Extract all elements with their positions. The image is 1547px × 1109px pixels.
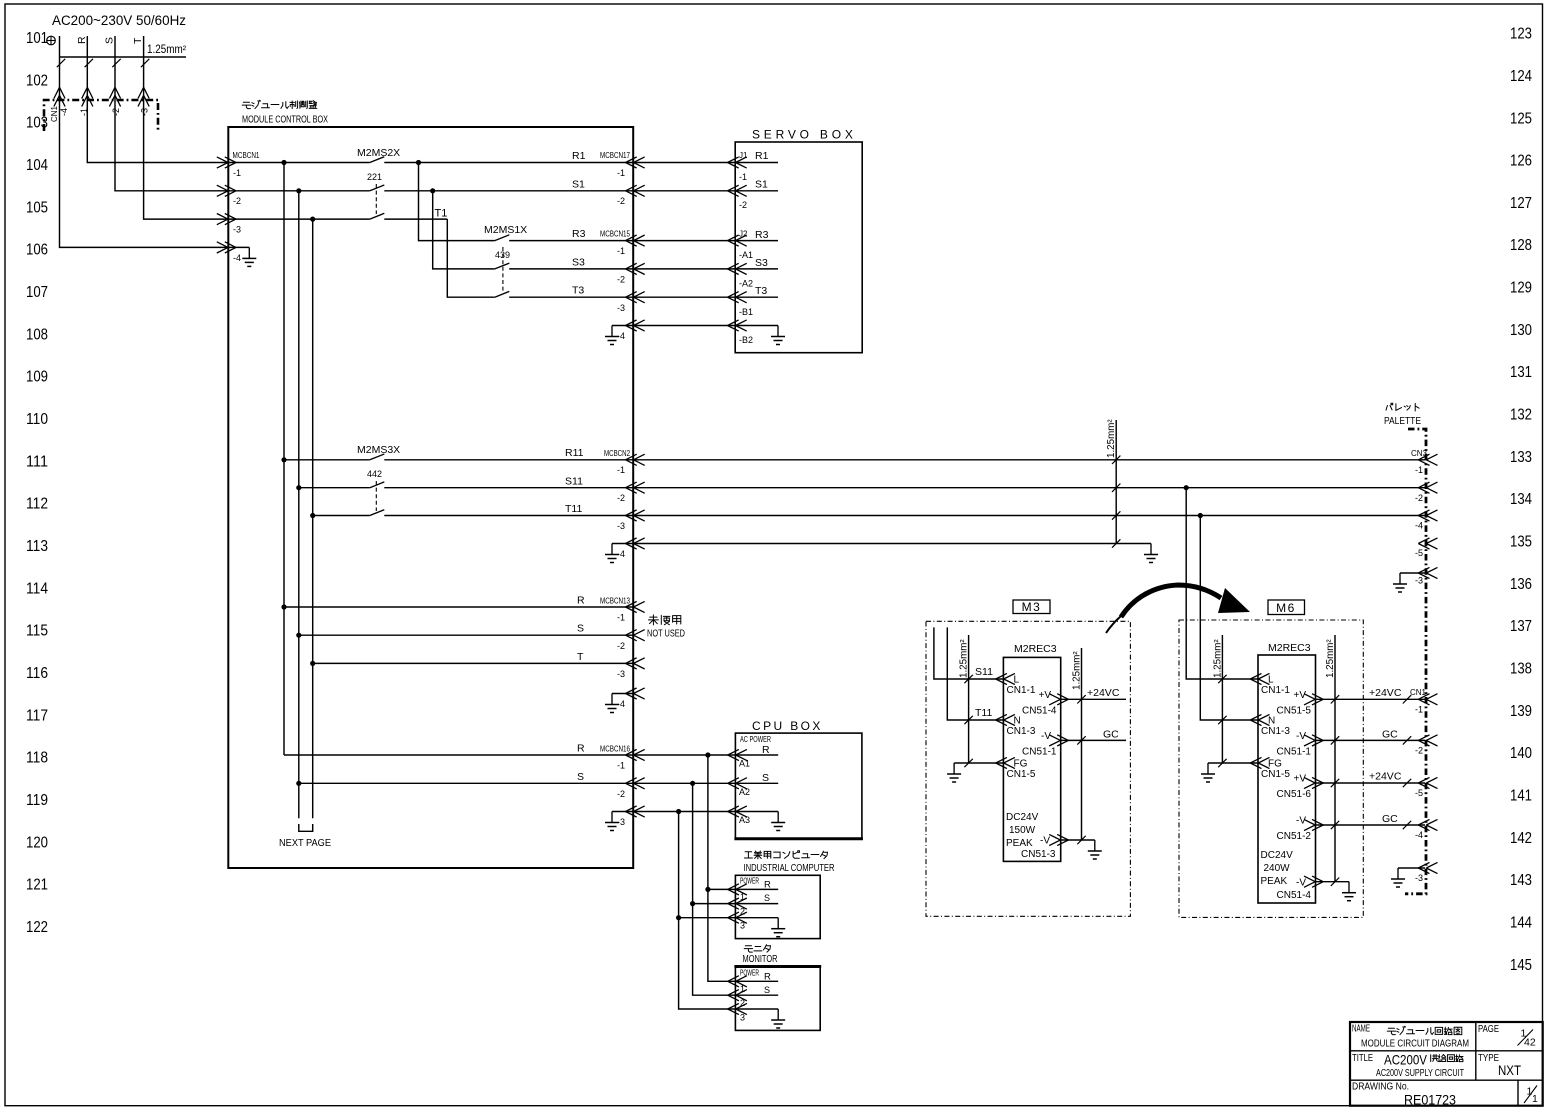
wire S11 stub M3 — [934, 627, 1004, 679]
svg-text:S11: S11 — [975, 666, 993, 678]
svg-text:-B1: -B1 — [739, 307, 753, 317]
svg-text:MCBCN17: MCBCN17 — [600, 150, 630, 160]
wire gauge line M6 right — [1334, 635, 1336, 882]
svg-text:123: 123 — [1510, 26, 1532, 43]
svg-text:3: 3 — [740, 921, 745, 931]
svg-text:42: 42 — [1524, 1037, 1536, 1049]
svg-text:-V: -V — [1041, 731, 1051, 742]
svg-text:117: 117 — [26, 707, 48, 724]
svg-text:-3: -3 — [233, 225, 241, 235]
svg-text:-2: -2 — [233, 196, 241, 206]
svg-text:131: 131 — [1510, 364, 1532, 381]
svg-text:107: 107 — [26, 284, 48, 301]
svg-text:-3: -3 — [1415, 873, 1423, 883]
svg-text:136: 136 — [1510, 576, 1532, 593]
svg-text:130: 130 — [1510, 322, 1532, 339]
svg-text:-2: -2 — [111, 108, 121, 116]
module M3 label — [1013, 600, 1050, 614]
svg-text:-3: -3 — [617, 521, 625, 531]
svg-text:CN51-2: CN51-2 — [1277, 831, 1312, 842]
svg-text:142: 142 — [1510, 830, 1532, 847]
wire S row (not used) — [299, 634, 633, 636]
wire MCBCN2-4 to ground right — [633, 543, 1151, 545]
bus R vertical — [283, 163, 285, 756]
svg-text:-5: -5 — [1415, 788, 1423, 798]
svg-text:1.25mm²: 1.25mm² — [1325, 639, 1336, 678]
svg-text:CN51-4: CN51-4 — [1277, 890, 1312, 901]
svg-text:3: 3 — [740, 1012, 745, 1022]
wire S drop to computer/monitor — [693, 783, 736, 995]
cpu box — [735, 733, 862, 839]
connector CN1 incoming (dashed box) — [44, 100, 158, 131]
wire S1 to servo — [633, 190, 735, 192]
svg-text:126: 126 — [1510, 153, 1532, 170]
svg-text:T: T — [132, 37, 144, 44]
ground at M6 -V — [1316, 881, 1350, 883]
module M6 dashed box — [1179, 620, 1363, 917]
next page continuation — [299, 824, 313, 831]
svg-text:T11: T11 — [565, 503, 582, 515]
svg-text:DRAWING No.: DRAWING No. — [1352, 1082, 1409, 1093]
svg-text:FG: FG — [1268, 759, 1282, 770]
ground at MCBCN16-3 — [612, 811, 633, 813]
svg-text:122: 122 — [26, 919, 48, 936]
wire T11 drop to M6 N — [1200, 516, 1258, 721]
wire PE to CPU A3 — [633, 811, 735, 813]
svg-text:1: 1 — [740, 984, 745, 994]
wire S11 drop to M6 L — [1186, 488, 1258, 679]
M2REC3 M6 pin -V CN51-1 — [1304, 735, 1323, 746]
svg-text:M3: M3 — [1022, 600, 1042, 614]
wire R3 row — [509, 240, 633, 242]
svg-text:140: 140 — [1510, 745, 1532, 762]
svg-text:AC POWER: AC POWER — [740, 734, 771, 744]
wire S row to CPU — [299, 782, 633, 784]
svg-text:CN1-5: CN1-5 — [1261, 769, 1290, 780]
wire T3 to servo — [633, 296, 735, 298]
svg-text:+24VC: +24VC — [1369, 687, 1402, 699]
wire S3 to servo — [633, 268, 735, 270]
power supply M2REC3 (M3) — [1003, 657, 1060, 861]
label not used — [648, 615, 658, 625]
svg-text:PAGE: PAGE — [1478, 1023, 1499, 1035]
M2REC3 M3 pin -V CN51-3 — [1049, 834, 1068, 845]
svg-text:S: S — [764, 985, 770, 995]
wire +24VC M3 — [1061, 698, 1126, 700]
svg-text:137: 137 — [1510, 618, 1532, 635]
svg-text:N: N — [1268, 716, 1275, 727]
M2REC3 M3 pin -V CN51-1 — [1049, 735, 1068, 746]
svg-text:R: R — [577, 743, 585, 755]
connector MCBCN13 — [626, 601, 645, 612]
svg-text:-3: -3 — [617, 669, 625, 679]
svg-text:MODULE CIRCUIT DIAGRAM: MODULE CIRCUIT DIAGRAM — [1361, 1039, 1469, 1050]
module control box — [228, 127, 633, 868]
svg-text:+V: +V — [1293, 690, 1306, 701]
svg-text:R1: R1 — [572, 150, 586, 162]
svg-text:NAME: NAME — [1352, 1024, 1370, 1035]
wire PE feed — [60, 36, 229, 247]
svg-text:+24VC: +24VC — [1087, 687, 1120, 699]
wire GC to palette CN1-2 — [1316, 739, 1426, 741]
svg-text:129: 129 — [1510, 280, 1532, 297]
svg-text:GC: GC — [1382, 813, 1398, 825]
left row labels 101-122 — [26, 30, 48, 936]
svg-text:CPU BOX: CPU BOX — [752, 719, 823, 733]
svg-text:128: 128 — [1510, 237, 1532, 254]
svg-text:-V: -V — [1296, 878, 1306, 889]
svg-text:R: R — [762, 744, 770, 756]
svg-text:-2: -2 — [617, 789, 625, 799]
wire R1 to servo — [633, 162, 735, 164]
svg-text:DC24V: DC24V — [1261, 850, 1294, 861]
svg-text:1: 1 — [1532, 1093, 1538, 1105]
wire T11 row — [384, 515, 1425, 517]
module M6 label — [1268, 600, 1305, 615]
ground at MCBCN1-4 — [228, 246, 249, 248]
svg-text:110: 110 — [26, 411, 48, 428]
svg-text:-1: -1 — [1415, 705, 1423, 715]
M2REC3 M6 pin N CN1-3 — [1250, 714, 1269, 725]
svg-text:M6: M6 — [1276, 601, 1296, 615]
svg-text:124: 124 — [1510, 68, 1532, 85]
svg-text:NXT: NXT — [1498, 1062, 1521, 1078]
svg-text:T3: T3 — [572, 285, 584, 297]
svg-text:TITLE: TITLE — [1352, 1053, 1373, 1064]
M2REC3 M6 pin +V CN51-6 — [1304, 777, 1323, 788]
M2REC3 M6 pin -V CN51-4 — [1304, 876, 1323, 887]
svg-text:112: 112 — [26, 496, 48, 513]
industrial computer box — [735, 875, 820, 938]
svg-text:1: 1 — [740, 892, 745, 902]
wire gauge line 1.25mm2 long — [1115, 420, 1117, 544]
svg-text:150W: 150W — [1009, 825, 1036, 836]
connector CPU AC POWER — [728, 749, 747, 760]
wire R11 row — [384, 459, 1425, 461]
svg-text:NEXT PAGE: NEXT PAGE — [279, 838, 331, 849]
svg-text:T3: T3 — [755, 285, 767, 297]
svg-text:MCBCN13: MCBCN13 — [600, 596, 630, 606]
servo box — [735, 142, 862, 353]
svg-text:134: 134 — [1510, 491, 1532, 508]
svg-text:-A1: -A1 — [739, 250, 753, 260]
svg-text:CN51-4: CN51-4 — [1022, 706, 1057, 717]
svg-text:144: 144 — [1510, 915, 1532, 932]
svg-text:DC24V: DC24V — [1006, 812, 1039, 823]
wire GC M3 — [1061, 739, 1126, 741]
ground at MCBCN2-4 inside — [612, 543, 633, 545]
svg-text:133: 133 — [1510, 449, 1532, 466]
svg-text:109: 109 — [26, 369, 48, 386]
svg-text:-V: -V — [1296, 731, 1306, 742]
svg-text:141: 141 — [1510, 788, 1532, 805]
svg-text:106: 106 — [26, 242, 48, 259]
svg-text:-2: -2 — [617, 641, 625, 651]
svg-text:AC200V SUPPLY CIRCUIT: AC200V SUPPLY CIRCUIT — [1376, 1068, 1464, 1079]
ground at servo -B2 — [735, 325, 778, 327]
svg-text:MCBCN1: MCBCN1 — [233, 150, 260, 160]
svg-text:M2REC3: M2REC3 — [1268, 642, 1311, 654]
svg-text:CN51-1: CN51-1 — [1022, 747, 1057, 758]
svg-text:T11: T11 — [975, 707, 992, 719]
contactor M2MS1X — [495, 235, 510, 241]
svg-text:J1: J1 — [739, 151, 748, 160]
svg-text:S: S — [764, 893, 770, 903]
svg-text:113: 113 — [26, 538, 48, 555]
svg-text:-1: -1 — [233, 168, 241, 178]
wire gauge bar 1.25mm2 — [60, 56, 187, 58]
svg-text:-2: -2 — [617, 275, 625, 285]
connector J2 — [728, 235, 747, 246]
wire R to CPU A1 — [633, 754, 735, 756]
svg-text:-1: -1 — [617, 168, 625, 178]
ground at computer pin3 — [735, 917, 778, 919]
svg-text:-1: -1 — [79, 108, 89, 116]
svg-text:MCBCN16: MCBCN16 — [600, 744, 630, 754]
wire R11 row left — [284, 459, 370, 461]
wire S1 row — [228, 190, 369, 192]
arrow M3 to M6 — [1121, 585, 1221, 617]
svg-text:1.25mm²: 1.25mm² — [959, 639, 970, 678]
ground at CN3-3 — [1400, 572, 1425, 574]
svg-text:R1: R1 — [755, 150, 769, 162]
svg-text:S: S — [577, 623, 584, 635]
svg-text:-B2: -B2 — [739, 335, 753, 345]
wire R row (not used) — [284, 606, 633, 608]
svg-text:442: 442 — [367, 469, 382, 479]
connector CN1 pin arrows — [54, 87, 65, 106]
svg-text:114: 114 — [26, 580, 48, 597]
contactor M2MS2X — [370, 157, 385, 163]
svg-text:143: 143 — [1510, 872, 1532, 889]
svg-text:J2: J2 — [739, 230, 748, 239]
bus S vertical — [298, 191, 300, 819]
svg-text:R3: R3 — [755, 229, 769, 241]
wire S11 row left — [299, 487, 370, 489]
svg-text:TYPE: TYPE — [1478, 1053, 1499, 1064]
svg-text:T: T — [577, 651, 584, 663]
connector computer POWER — [728, 884, 747, 895]
svg-text:-1: -1 — [617, 613, 625, 623]
ground at M6 FG — [1208, 762, 1258, 764]
svg-text:-A2: -A2 — [739, 279, 753, 289]
svg-text:A1: A1 — [739, 759, 750, 769]
svg-text:+V: +V — [1293, 774, 1306, 785]
wire gauge line M3 left — [968, 635, 970, 763]
svg-text:221: 221 — [367, 172, 382, 182]
svg-text:-2: -2 — [1415, 746, 1423, 756]
svg-text:1.25mm²: 1.25mm² — [147, 44, 186, 56]
svg-text:-1: -1 — [617, 761, 625, 771]
svg-text:CN51-1: CN51-1 — [1277, 747, 1312, 758]
svg-text:S: S — [762, 772, 769, 784]
svg-text:A2: A2 — [739, 787, 750, 797]
monitor box — [735, 967, 820, 1031]
svg-text:CN1-1: CN1-1 — [1007, 685, 1036, 696]
svg-text:111: 111 — [26, 453, 48, 470]
svg-text:PEAK: PEAK — [1261, 876, 1288, 887]
connector monitor POWER — [728, 976, 747, 987]
power supply M2REC3 (M6) — [1258, 655, 1316, 903]
M2REC3 M6 pin -V CN51-2 — [1304, 819, 1323, 830]
svg-text:-4: -4 — [59, 108, 69, 116]
ground at M3 FG — [954, 762, 1003, 764]
svg-text:CN51-5: CN51-5 — [1277, 706, 1312, 717]
ground at M3 -V — [1061, 839, 1095, 841]
wire gauge line M3 right — [1081, 648, 1083, 840]
svg-text:FG: FG — [1014, 759, 1028, 770]
svg-text:139: 139 — [1510, 703, 1532, 720]
svg-text:-4: -4 — [1415, 521, 1423, 531]
svg-text:M2MS1X: M2MS1X — [484, 224, 527, 236]
ground at MCBCN15-4 — [612, 325, 633, 327]
svg-text:116: 116 — [26, 665, 48, 682]
svg-text:-4: -4 — [233, 253, 241, 263]
wire T row (not used) — [313, 662, 634, 664]
svg-text:NOT USED: NOT USED — [647, 629, 685, 640]
M2REC3 M3 pin +V CN51-4 — [1049, 694, 1068, 705]
wire S feed — [115, 36, 228, 191]
svg-text:RE01723: RE01723 — [1404, 1092, 1456, 1108]
svg-text:INDUSTRIAL COMPUTER: INDUSTRIAL COMPUTER — [744, 863, 835, 874]
svg-text:T1: T1 — [435, 208, 448, 220]
svg-text:CN1: CN1 — [50, 105, 59, 122]
bus T vertical — [312, 219, 314, 818]
svg-text:105: 105 — [26, 199, 48, 216]
svg-text:S1: S1 — [572, 179, 585, 191]
M2REC3 M3 pin FG CN1-5 — [996, 757, 1015, 768]
wire S11 row — [384, 487, 1425, 489]
ground at MCBCN13-4 — [612, 693, 633, 695]
svg-text:135: 135 — [1510, 534, 1532, 551]
M2REC3 M6 pin L CN1-1 — [1250, 673, 1269, 684]
svg-text:1.25mm²: 1.25mm² — [1213, 639, 1224, 678]
svg-text:S: S — [577, 771, 584, 783]
svg-text:R: R — [76, 36, 88, 44]
svg-text:121: 121 — [26, 877, 48, 894]
svg-text:CN51-3: CN51-3 — [1021, 849, 1056, 860]
svg-text:GC: GC — [1103, 729, 1119, 741]
svg-text:R: R — [577, 595, 585, 607]
svg-text:L: L — [1014, 675, 1020, 686]
wire PE drop to computer/monitor — [679, 812, 736, 1010]
ground at CPU A3 — [735, 811, 778, 813]
svg-text:CN1: CN1 — [1410, 688, 1427, 697]
svg-text:+V: +V — [1038, 690, 1051, 701]
svg-text:-2: -2 — [617, 196, 625, 206]
ground at CN1-3 — [1398, 867, 1425, 869]
wire S to CPU A2 — [633, 782, 735, 784]
svg-text:L: L — [1268, 675, 1274, 686]
svg-text:-2: -2 — [739, 200, 747, 210]
svg-text:CN51-6: CN51-6 — [1277, 789, 1312, 800]
svg-text:+24VC: +24VC — [1369, 771, 1402, 783]
wire T3 row — [509, 296, 633, 298]
svg-text:127: 127 — [1510, 195, 1532, 212]
svg-text:-1: -1 — [617, 246, 625, 256]
svg-text:120: 120 — [26, 834, 48, 851]
wire GC to palette CN1-4 — [1316, 824, 1426, 826]
svg-text:CN1-3: CN1-3 — [1261, 726, 1290, 737]
svg-text:115: 115 — [26, 623, 48, 640]
svg-text:GC: GC — [1382, 729, 1398, 741]
svg-text:119: 119 — [26, 792, 48, 809]
contactor M2MS3X — [370, 454, 385, 460]
svg-text:S: S — [103, 37, 115, 44]
svg-text:SERVO BOX: SERVO BOX — [752, 128, 857, 142]
svg-text:MCBCN2: MCBCN2 — [604, 448, 630, 458]
right row labels 123-145 — [1510, 26, 1532, 974]
svg-text:101: 101 — [26, 30, 48, 47]
connector MCBCN2 — [626, 454, 645, 465]
svg-text:-4: -4 — [1415, 830, 1423, 840]
wire T11 row left — [313, 515, 370, 517]
wire gauge line M6 left — [1221, 635, 1223, 763]
svg-text:CN1-5: CN1-5 — [1007, 769, 1036, 780]
wire R3 to servo — [633, 240, 735, 242]
svg-text:PEAK: PEAK — [1006, 838, 1033, 849]
wire R1 row — [228, 162, 369, 164]
svg-text:125: 125 — [1510, 110, 1532, 127]
svg-text:132: 132 — [1510, 407, 1532, 424]
svg-text:-1: -1 — [617, 465, 625, 475]
wire T1 row — [228, 218, 369, 220]
svg-text:M2MS3X: M2MS3X — [357, 444, 400, 456]
ground at monitor pin3 — [735, 1008, 778, 1010]
M2REC3 M3 pin N CN1-3 — [996, 714, 1015, 725]
M2REC3 M3 pin L CN1-1 — [996, 673, 1015, 684]
svg-text:MCBCN15: MCBCN15 — [600, 229, 630, 239]
palette boundary dash-dot line — [1405, 429, 1426, 894]
svg-text:1.25mm²: 1.25mm² — [1072, 651, 1083, 690]
connector MCBCN16 — [626, 749, 645, 760]
svg-text:-5: -5 — [1415, 548, 1423, 558]
title block — [1350, 1022, 1543, 1106]
wire S1 to S3 drop — [433, 191, 495, 269]
svg-text:MODULE CONTROL BOX: MODULE CONTROL BOX — [242, 115, 328, 126]
svg-text:S11: S11 — [565, 476, 583, 488]
svg-text:102: 102 — [26, 72, 48, 89]
svg-text:240W: 240W — [1264, 863, 1291, 874]
wire R feed — [87, 36, 228, 163]
svg-text:CN1-3: CN1-3 — [1007, 726, 1036, 737]
svg-text:-V: -V — [1296, 816, 1306, 827]
svg-text:138: 138 — [1510, 661, 1532, 678]
svg-text:145: 145 — [1510, 957, 1532, 974]
connector MCBCN1 — [217, 157, 236, 168]
svg-text:MONITOR: MONITOR — [743, 954, 778, 965]
svg-text:-2: -2 — [617, 493, 625, 503]
svg-text:-3: -3 — [140, 108, 150, 116]
svg-text:R11: R11 — [565, 447, 584, 459]
svg-text:-2: -2 — [1415, 493, 1423, 503]
wire +24VC to palette CN1-5 — [1316, 782, 1426, 784]
svg-text:-3: -3 — [1415, 576, 1423, 586]
svg-text:108: 108 — [26, 326, 48, 343]
svg-text:N: N — [1014, 716, 1021, 727]
wire T11 stub M3 — [947, 627, 1003, 720]
svg-text:POWER: POWER — [740, 876, 759, 886]
svg-text:S3: S3 — [755, 257, 768, 269]
svg-text:AC200V: AC200V — [1384, 1052, 1428, 1068]
svg-text:S1: S1 — [755, 179, 768, 191]
svg-text:S3: S3 — [572, 257, 585, 269]
svg-text:R3: R3 — [572, 228, 586, 240]
connector MCBCN15 — [626, 235, 645, 246]
svg-text:2: 2 — [740, 906, 745, 916]
wire +24VC to palette CN1-1 — [1316, 698, 1426, 700]
svg-text:104: 104 — [26, 157, 48, 174]
